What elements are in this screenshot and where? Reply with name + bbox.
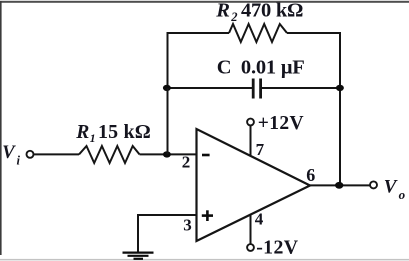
wire top feedback left segment (168, 33, 230, 88)
terminal -12V (247, 244, 254, 251)
label Vi (2, 143, 20, 168)
terminal +12V (247, 119, 254, 126)
svg-text:o: o (399, 187, 406, 202)
capacitor C (253, 79, 260, 99)
plus mark non-inverting input (202, 210, 213, 221)
wire non-inverting input to ground (138, 215, 197, 252)
wire capacitor right lead (262, 87, 340, 89)
wire left vertical feedback (167, 88, 169, 154)
op-amp U1 (197, 129, 311, 241)
wire pin 7 supply (250, 125, 252, 156)
svg-text:R: R (215, 0, 230, 22)
svg-text:V: V (2, 143, 16, 163)
label R1 15 kOhm (75, 121, 151, 145)
node junction cap-left (163, 85, 171, 91)
svg-text:2: 2 (230, 10, 237, 24)
label C 0.01 uF (217, 56, 305, 78)
resistor R1 (79, 146, 140, 163)
svg-text:1: 1 (90, 131, 96, 145)
svg-text:R: R (75, 122, 89, 143)
svg-text:15 kΩ: 15 kΩ (98, 121, 151, 143)
minus mark inverting input (202, 154, 210, 157)
wire R1 to inverting input (140, 153, 197, 155)
resistor R2 (229, 24, 287, 42)
svg-text:3: 3 (183, 216, 192, 235)
svg-text:C: C (217, 56, 232, 78)
svg-text:+12V: +12V (258, 113, 304, 134)
svg-text:470 kΩ: 470 kΩ (241, 0, 303, 22)
node junction input (163, 151, 171, 157)
wire pin 4 supply (250, 215, 252, 245)
svg-text:V: V (384, 176, 398, 197)
svg-text:7: 7 (256, 140, 265, 159)
output terminal Vo (370, 181, 377, 188)
node junction cap-right (336, 85, 344, 91)
svg-text:i: i (17, 154, 21, 168)
svg-text:-12V: -12V (256, 237, 299, 259)
svg-text:2: 2 (182, 153, 191, 172)
svg-text:6: 6 (306, 165, 315, 185)
ground (123, 253, 154, 259)
label Vo (384, 176, 406, 202)
svg-text:0.01 μF: 0.01 μF (241, 56, 305, 78)
wire top feedback right segment (287, 33, 340, 88)
input terminal Vi (27, 151, 34, 158)
wire input lead (34, 153, 79, 155)
svg-text:4: 4 (255, 210, 264, 229)
node junction output (335, 182, 343, 189)
wire capacitor left lead (168, 87, 253, 89)
label R2 470 kOhm (215, 0, 303, 24)
wire right vertical to output (339, 88, 341, 185)
wire output (310, 184, 370, 186)
